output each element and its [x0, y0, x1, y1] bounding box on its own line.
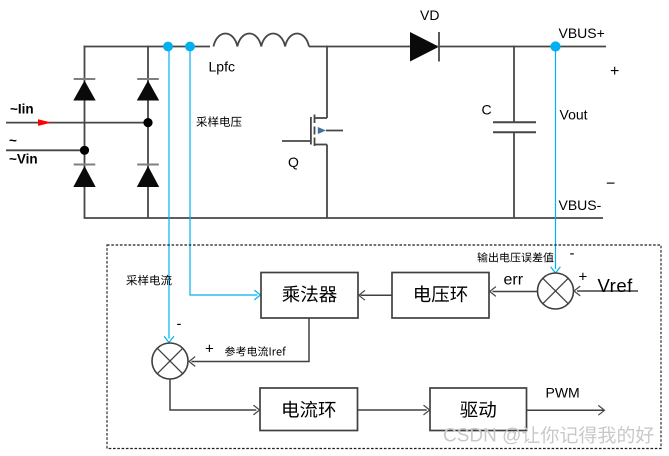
node junction right leg — [143, 118, 152, 127]
svg-text:+: + — [579, 269, 588, 286]
svg-text:Vout: Vout — [560, 107, 588, 123]
wire input Iin — [6, 122, 148, 124]
svg-text:~Iin: ~Iin — [10, 102, 34, 117]
node sense tap 2 — [185, 42, 195, 52]
wire sense voltage tap — [190, 47, 258, 296]
wire bottom bus — [84, 217, 603, 219]
summing junction voltage error — [538, 273, 574, 309]
wire current loop to driver — [358, 409, 427, 411]
wire top bus middle segment — [309, 46, 411, 48]
svg-text:VD: VD — [420, 7, 439, 23]
svg-text:C: C — [482, 102, 492, 118]
control box dashed border — [107, 245, 661, 449]
svg-text:−: − — [606, 176, 615, 193]
label sampling voltage — [196, 116, 241, 127]
svg-text:Q: Q — [288, 154, 299, 170]
diode VD — [410, 32, 439, 62]
wire top bus right segment — [437, 46, 606, 48]
svg-text:Vref: Vref — [598, 275, 634, 296]
arrow input current red — [38, 119, 52, 126]
svg-text:CSDN @: CSDN @ — [443, 426, 521, 447]
wire voltage loop to multiplier — [361, 294, 393, 296]
wire junction to current loop — [170, 379, 256, 410]
wire top bus left segment — [84, 46, 210, 48]
svg-text:-: - — [570, 245, 575, 262]
svg-text:+: + — [610, 63, 619, 80]
label sampling current — [126, 275, 171, 286]
wire Vref input — [577, 290, 638, 292]
svg-text:VBUS-: VBUS- — [559, 197, 602, 213]
wire input Vin — [6, 149, 85, 151]
label output voltage error — [478, 252, 554, 262]
wire err to voltage loop — [493, 291, 538, 293]
wire bridge right leg — [147, 46, 149, 218]
wire bridge left leg — [84, 46, 86, 218]
capacitor C1 — [513, 46, 515, 123]
node sense tap 1 — [163, 42, 173, 52]
svg-text:~Vin: ~Vin — [9, 152, 38, 167]
svg-text:-: - — [177, 316, 182, 333]
svg-text:Lpfc: Lpfc — [209, 59, 235, 75]
block current loop — [260, 388, 358, 431]
svg-text:+: + — [205, 341, 214, 358]
block voltage loop — [392, 273, 489, 319]
label reference current Iref — [225, 346, 286, 356]
block driver — [430, 388, 527, 431]
svg-text:~: ~ — [9, 133, 17, 148]
wire output voltage sense — [555, 47, 557, 270]
node output sense — [550, 41, 560, 51]
block multiplier — [261, 273, 358, 319]
svg-text:err: err — [504, 272, 524, 289]
summing junction current ref — [152, 343, 188, 379]
node junction left leg — [80, 146, 89, 155]
diode bridge lower-right — [137, 164, 159, 166]
diode bridge upper-left — [74, 78, 96, 80]
svg-text:PWM: PWM — [546, 385, 580, 401]
inductor Lpfc — [214, 34, 310, 47]
wire multiplier to current ref junction — [192, 318, 310, 361]
wire sense current tap — [168, 47, 170, 339]
diode bridge lower-left — [74, 164, 96, 166]
wire driver PWM output — [527, 409, 605, 411]
transistor Q1 MOSFET — [282, 46, 343, 218]
svg-text:VBUS+: VBUS+ — [559, 25, 605, 41]
diode bridge upper-right — [137, 78, 159, 80]
